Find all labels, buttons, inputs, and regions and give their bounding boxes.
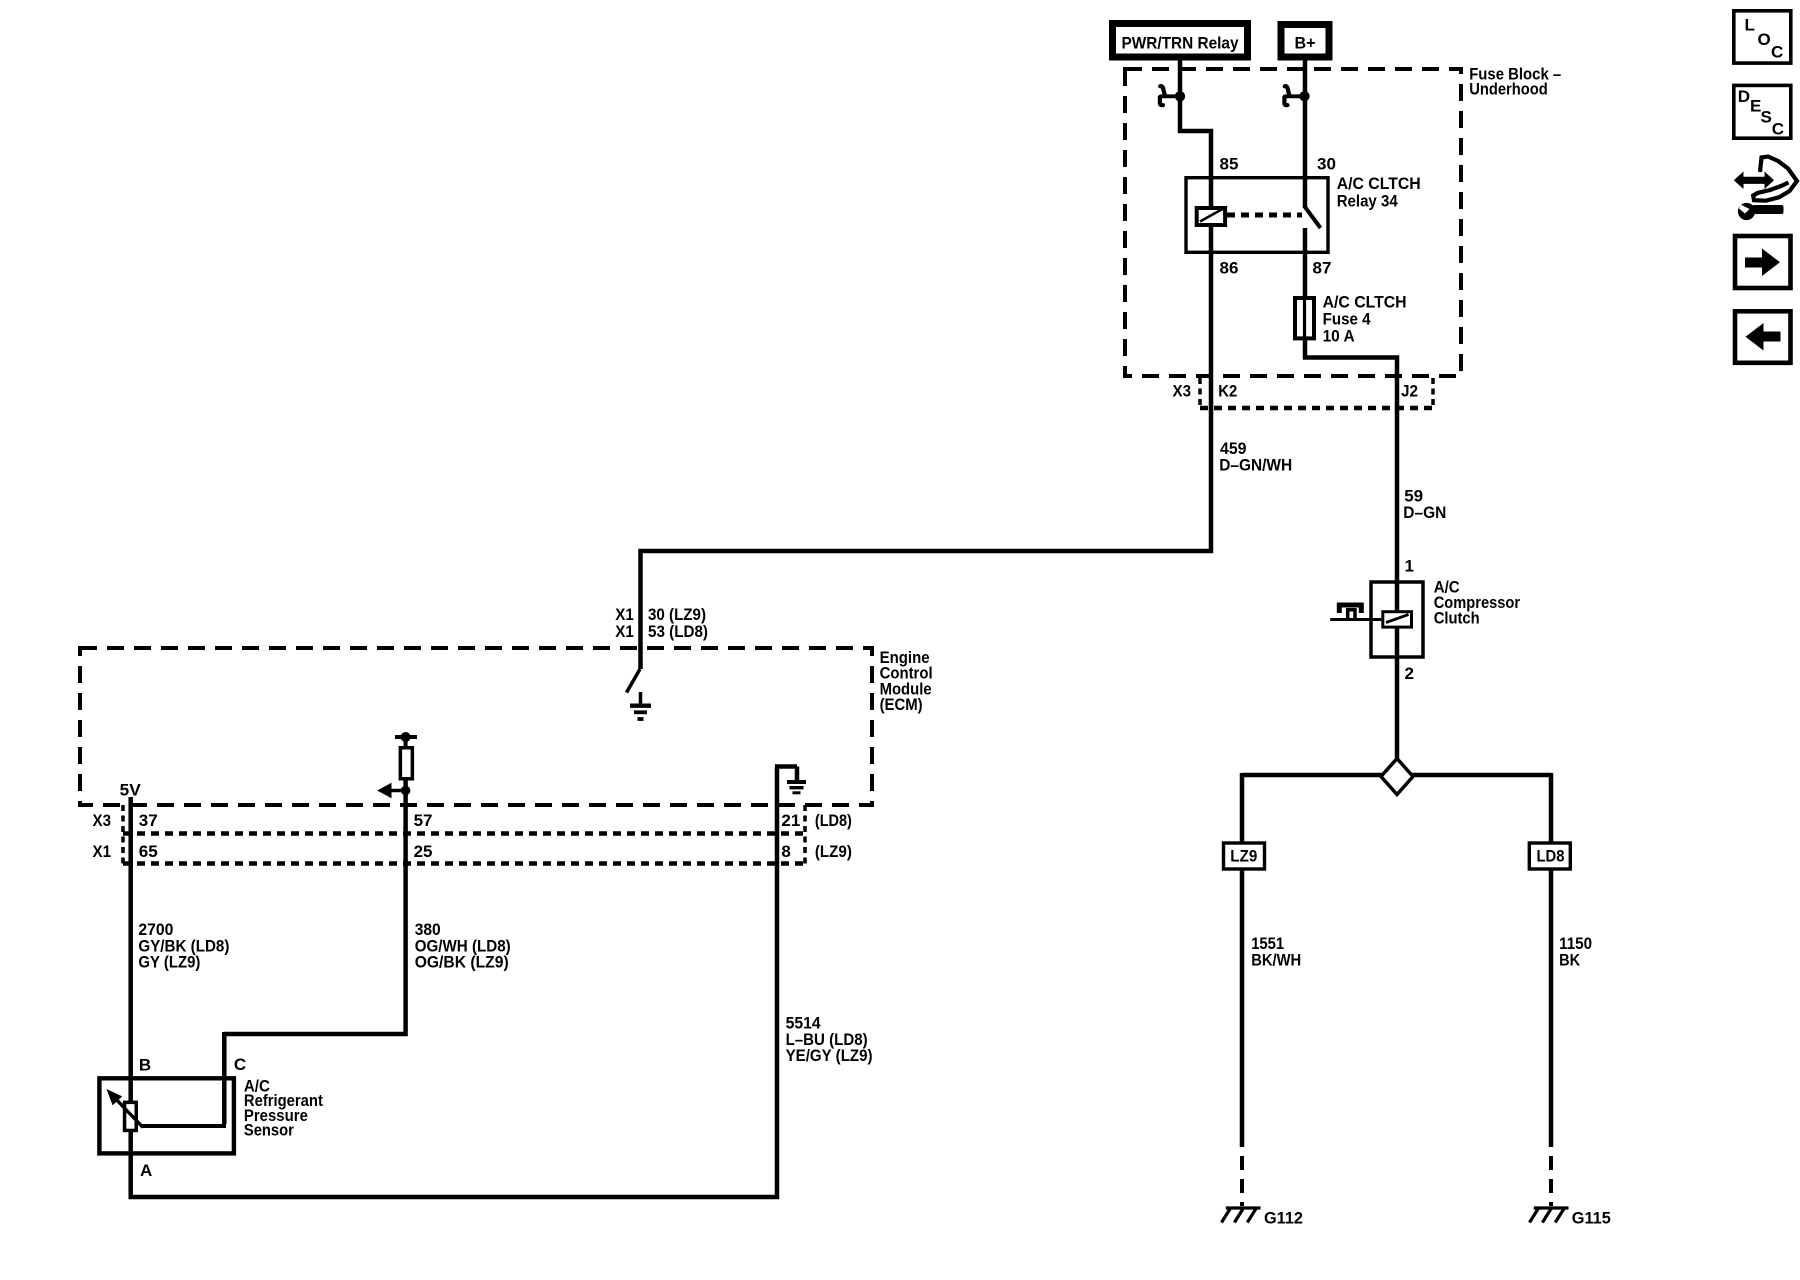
svg-text:57: 57 — [414, 811, 433, 830]
svg-text:BK/WH: BK/WH — [1251, 951, 1301, 970]
svg-text:85: 85 — [1220, 155, 1239, 174]
svg-text:B: B — [139, 1056, 151, 1075]
svg-text:L: L — [1745, 16, 1755, 35]
svg-text:J2: J2 — [1401, 382, 1418, 401]
svg-text:LD8: LD8 — [1537, 847, 1565, 866]
svg-text:25: 25 — [414, 842, 433, 861]
svg-text:65: 65 — [139, 842, 158, 861]
svg-text:86: 86 — [1220, 259, 1239, 278]
svg-text:D–GN/WH: D–GN/WH — [1219, 456, 1292, 475]
svg-text:G112: G112 — [1264, 1209, 1303, 1228]
svg-text:(ECM): (ECM) — [880, 695, 923, 714]
svg-text:21: 21 — [781, 811, 800, 830]
svg-text:S: S — [1761, 108, 1772, 127]
svg-text:37: 37 — [139, 811, 158, 830]
svg-text:8: 8 — [781, 842, 790, 861]
svg-text:53 (LD8): 53 (LD8) — [648, 622, 708, 641]
svg-text:X1: X1 — [93, 842, 112, 861]
svg-text:BK: BK — [1559, 951, 1581, 970]
svg-text:Sensor: Sensor — [244, 1121, 294, 1140]
svg-text:YE/GY (LZ9): YE/GY (LZ9) — [786, 1046, 873, 1065]
svg-text:C: C — [1771, 43, 1783, 62]
svg-text:87: 87 — [1313, 259, 1332, 278]
svg-text:A/C CLTCH: A/C CLTCH — [1337, 174, 1421, 193]
svg-text:O: O — [1758, 30, 1771, 49]
svg-text:LZ9: LZ9 — [1230, 847, 1257, 866]
svg-text:2: 2 — [1405, 664, 1414, 683]
svg-text:X3: X3 — [93, 811, 112, 830]
svg-text:X3: X3 — [1173, 382, 1192, 401]
svg-text:C: C — [234, 1055, 246, 1074]
svg-text:OG/BK (LZ9): OG/BK (LZ9) — [415, 953, 509, 972]
svg-text:G115: G115 — [1572, 1209, 1611, 1228]
svg-text:X1: X1 — [615, 622, 634, 641]
svg-text:10 A: 10 A — [1323, 327, 1355, 346]
svg-text:Underhood: Underhood — [1469, 80, 1548, 99]
svg-text:(LD8): (LD8) — [815, 811, 852, 830]
svg-text:K2: K2 — [1218, 382, 1237, 401]
svg-text:1: 1 — [1405, 557, 1414, 576]
svg-text:B+: B+ — [1295, 34, 1316, 53]
svg-text:C: C — [1772, 120, 1784, 139]
svg-text:A: A — [140, 1161, 152, 1180]
svg-text:(LZ9): (LZ9) — [815, 842, 852, 861]
svg-text:Relay 34: Relay 34 — [1337, 192, 1398, 211]
svg-text:D: D — [1738, 87, 1750, 106]
svg-text:GY (LZ9): GY (LZ9) — [138, 953, 200, 972]
svg-text:30: 30 — [1317, 155, 1336, 174]
svg-text:D–GN: D–GN — [1403, 503, 1446, 522]
svg-text:Clutch: Clutch — [1434, 609, 1480, 628]
svg-text:PWR/TRN Relay: PWR/TRN Relay — [1122, 34, 1239, 53]
svg-text:5V: 5V — [120, 781, 142, 800]
